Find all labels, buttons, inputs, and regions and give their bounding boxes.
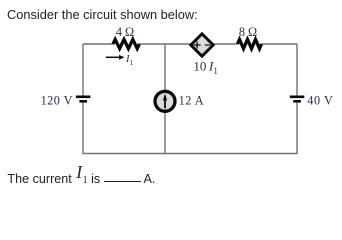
current source I 12A (circle) <box>155 91 175 111</box>
svg-text:10I1: 10I1 <box>193 58 217 76</box>
minus sign <box>205 44 210 46</box>
svg-text:I1: I1 <box>125 54 134 67</box>
battery V1 120V plates <box>76 96 91 99</box>
resistor 4ohm <box>113 39 139 48</box>
current arrow I1 <box>106 56 120 58</box>
svg-text:8 Ω: 8 Ω <box>239 25 257 39</box>
plus sign <box>194 42 201 49</box>
question text <box>7 170 155 192</box>
svg-text:40 V: 40 V <box>307 94 333 108</box>
arrow inside current source <box>164 96 166 109</box>
battery V2 40V plates <box>290 96 305 99</box>
dependent source U1 (diamond) <box>191 34 213 56</box>
wire bottom <box>82 153 297 155</box>
wire left <box>82 44 84 154</box>
wire right <box>296 44 298 154</box>
svg-text:4 Ω: 4 Ω <box>116 25 134 39</box>
svg-text:120 V: 120 V <box>41 94 73 108</box>
title text <box>7 8 198 22</box>
svg-text:12 A: 12 A <box>179 94 205 108</box>
wire middle <box>164 44 166 154</box>
resistor 8ohm <box>238 39 262 48</box>
wire top <box>83 43 297 45</box>
